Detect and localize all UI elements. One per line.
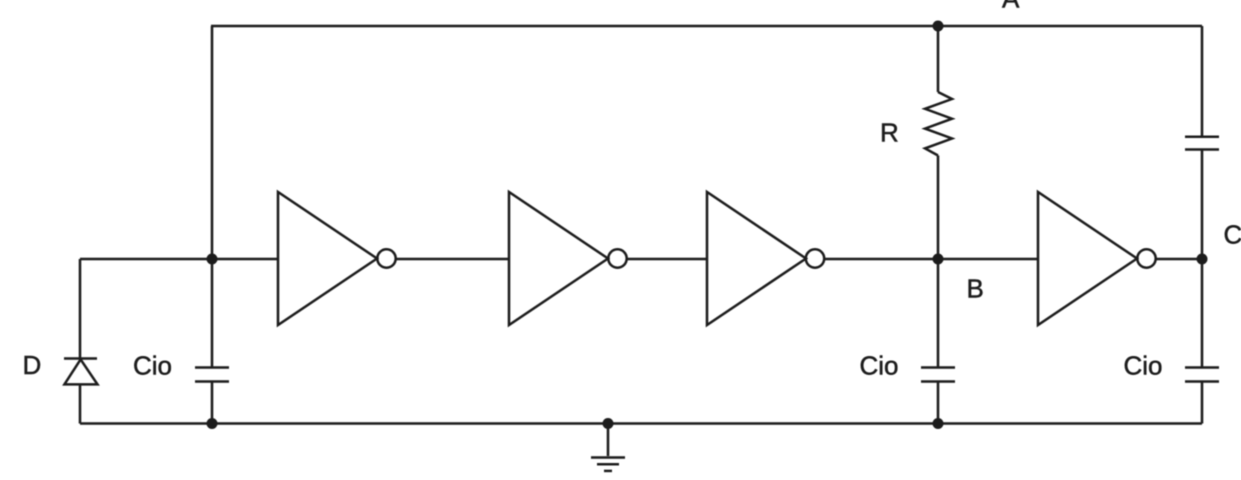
- wire top rail: [211, 25, 1202, 28]
- svg-text:C: C: [1224, 220, 1241, 250]
- wire right Cio capacitor to bottom rail: [1201, 382, 1204, 424]
- wire resistor to node B: [937, 156, 940, 260]
- wire capacitor to node C: [1201, 150, 1204, 260]
- wire left node down to left Cio capacitor: [211, 259, 214, 368]
- diode D: [64, 359, 98, 385]
- capacitor Cio middle: [921, 368, 955, 382]
- capacitor Cio right: [1185, 368, 1219, 382]
- resistor R: [925, 92, 952, 156]
- junction left on bottom rail: [207, 418, 218, 429]
- junction node A: [933, 21, 944, 32]
- wire node C down to right Cio capacitor: [1201, 259, 1204, 368]
- wire node A down to resistor: [937, 26, 940, 92]
- svg-text:R: R: [880, 118, 899, 148]
- junction middle on bottom rail: [933, 418, 944, 429]
- inverter 2: [509, 192, 627, 325]
- svg-text:Cio: Cio: [1124, 351, 1163, 381]
- wire main rail left segment: [80, 258, 278, 261]
- svg-text:Cio: Cio: [860, 351, 899, 381]
- wire bottom rail: [80, 422, 1202, 425]
- svg-text:Cio: Cio: [133, 351, 172, 381]
- wire left vertical to diode cathode: [79, 259, 82, 359]
- junction left node on main rail: [207, 254, 218, 265]
- capacitor Cio left: [195, 368, 229, 382]
- wire middle Cio capacitor to bottom rail: [937, 382, 940, 424]
- wire left feedback vertical: [211, 26, 214, 259]
- inverter 1: [278, 192, 396, 325]
- svg-text:B: B: [967, 274, 984, 304]
- svg-text:D: D: [23, 350, 42, 380]
- svg-text:A: A: [1002, 0, 1020, 14]
- wire node B down to middle Cio capacitor: [937, 259, 940, 368]
- capacitor top right: [1185, 137, 1219, 150]
- wire inverter4 output to node C: [1155, 258, 1202, 261]
- ground: [591, 424, 625, 471]
- junction ground on bottom rail: [603, 418, 614, 429]
- junction node C: [1197, 254, 1208, 265]
- wire inverter3 output through node B to inverter4 input: [824, 258, 1038, 261]
- inverter 4: [1038, 192, 1156, 325]
- wire right vertical from node A rail to capacitor: [1201, 26, 1204, 137]
- inverter 3: [707, 192, 824, 325]
- wire inverter2 output to inverter3 input: [627, 258, 707, 261]
- wire inverter1 output to inverter2 input: [395, 258, 509, 261]
- wire left Cio capacitor to bottom rail: [211, 382, 214, 424]
- wire diode anode to bottom rail: [79, 384, 82, 423]
- junction node B: [933, 254, 944, 265]
